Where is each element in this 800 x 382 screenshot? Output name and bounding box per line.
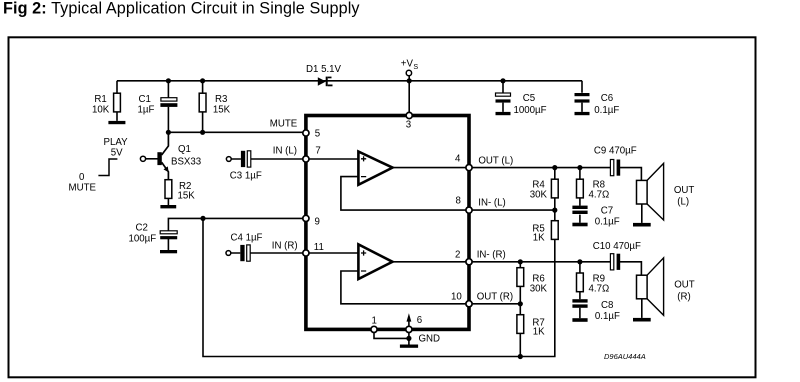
svg-text:IN (L): IN (L) [273, 145, 297, 156]
svg-text:Q1: Q1 [178, 144, 191, 155]
svg-text:OUT (L): OUT (L) [478, 155, 513, 166]
svg-text:C4 1µF: C4 1µF [231, 232, 263, 243]
svg-text:BSX33: BSX33 [171, 157, 201, 168]
svg-text:OUT (R): OUT (R) [477, 291, 513, 302]
svg-text:30K: 30K [530, 283, 548, 294]
svg-text:0.1µF: 0.1µF [595, 217, 620, 228]
svg-text:5: 5 [315, 129, 320, 140]
svg-text:10: 10 [451, 292, 462, 303]
svg-text:C2: C2 [136, 223, 148, 234]
svg-text:8: 8 [456, 195, 461, 206]
svg-text:S: S [413, 62, 418, 71]
svg-text:C10 470µF: C10 470µF [593, 241, 641, 252]
svg-text:1: 1 [372, 315, 377, 326]
svg-text:3: 3 [406, 119, 411, 130]
svg-text:1K: 1K [533, 232, 545, 243]
svg-text:C3 1µF: C3 1µF [230, 170, 262, 181]
svg-text:15K: 15K [178, 191, 196, 202]
svg-text:Fig 2: Typical Application Cir: Fig 2: Typical Application Circuit in Si… [3, 0, 360, 18]
svg-text:1000µF: 1000µF [514, 105, 547, 116]
svg-text:OUT: OUT [674, 185, 695, 196]
svg-text:OUT: OUT [674, 279, 695, 290]
svg-text:PLAY: PLAY [104, 137, 129, 148]
svg-text:MUTE: MUTE [69, 182, 97, 193]
svg-text:10K: 10K [92, 105, 110, 116]
svg-text:IN- (L): IN- (L) [478, 197, 505, 208]
svg-text:15K: 15K [213, 105, 231, 116]
svg-text:100µF: 100µF [129, 234, 157, 245]
svg-text:7: 7 [315, 145, 320, 156]
svg-text:D96AU444A: D96AU444A [604, 352, 646, 361]
svg-text:6: 6 [417, 315, 422, 326]
svg-text:(L): (L) [677, 197, 689, 208]
svg-text:C7: C7 [601, 205, 613, 216]
svg-text:5V: 5V [111, 148, 123, 159]
svg-text:11: 11 [314, 242, 324, 253]
svg-text:IN- (R): IN- (R) [477, 250, 506, 261]
svg-text:C9 470µF: C9 470µF [594, 145, 637, 156]
svg-text:GND: GND [419, 334, 441, 345]
svg-text:+V: +V [401, 58, 414, 69]
svg-text:MUTE: MUTE [270, 119, 298, 130]
svg-text:4: 4 [455, 153, 461, 164]
svg-text:0.1µF: 0.1µF [595, 311, 620, 322]
svg-text:C5: C5 [523, 93, 535, 104]
svg-text:9: 9 [315, 216, 320, 227]
svg-text:IN (R): IN (R) [272, 241, 298, 252]
svg-text:D1 5.1V: D1 5.1V [306, 64, 342, 75]
svg-text:1K: 1K [533, 327, 545, 338]
svg-text:30K: 30K [530, 189, 548, 200]
svg-text:C6: C6 [601, 93, 613, 104]
svg-text:4.7Ω: 4.7Ω [589, 284, 610, 295]
svg-text:4.7Ω: 4.7Ω [589, 190, 610, 201]
svg-text:1µF: 1µF [138, 105, 155, 116]
svg-text:C8: C8 [601, 300, 613, 311]
svg-text:2: 2 [455, 250, 460, 261]
svg-text:0.1µF: 0.1µF [594, 105, 619, 116]
svg-text:(R): (R) [677, 292, 690, 303]
